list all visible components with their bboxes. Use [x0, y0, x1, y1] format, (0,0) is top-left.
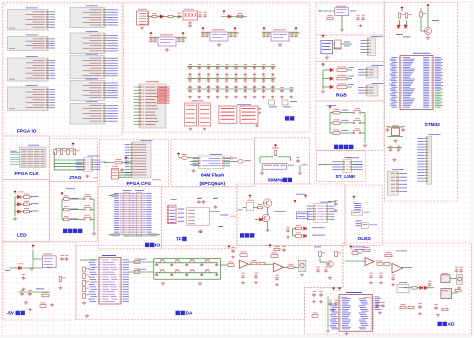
capacitor C105 [459, 269, 463, 273]
section border TF CARD TF卡 [161, 187, 237, 249]
fuse F1 [152, 15, 157, 18]
resistor R48 feedback [385, 254, 392, 257]
wire buz3 [267, 222, 269, 229]
svg-text:JTAG: JTAG [69, 175, 82, 181]
power flag key2 [329, 106, 332, 110]
RGB LED D8 [330, 85, 333, 89]
USB connector J1 [137, 11, 149, 25]
svg-text:FPGA CFG: FPGA CFG [127, 181, 152, 187]
crystal Y2 [392, 128, 400, 136]
net label buzic top [296, 193, 305, 196]
power flag osc [274, 144, 277, 148]
net label -5vb [36, 288, 44, 291]
net label led2 [31, 210, 39, 213]
net label da right [314, 246, 321, 249]
wire oled [353, 202, 355, 204]
wire stmled [399, 20, 401, 25]
oscillator Y1 [263, 163, 287, 169]
transformer T2 [441, 289, 452, 299]
DA filter components [155, 262, 218, 264]
wire jtag left [53, 152, 55, 170]
push button S5 [353, 121, 361, 124]
capacitor C84 [28, 292, 32, 296]
connector P6 (FPGA IO bank) [70, 33, 105, 54]
ground oscsec [325, 56, 329, 60]
ground ad ext3 [331, 309, 335, 312]
section border KEY1 独立按键 [49, 182, 97, 242]
power flag da2 [269, 244, 272, 248]
wire cfg jumper [119, 172, 132, 174]
net label oled conn [364, 211, 370, 214]
capacitor C82b [65, 257, 69, 261]
resistor R17 [337, 86, 347, 89]
ground rst1 [359, 24, 363, 27]
resistor R20 [333, 132, 340, 135]
wire rgb vertical [322, 70, 324, 89]
wire da op [248, 263, 251, 265]
plug key bottom right [149, 234, 157, 236]
svg-text:(EPCQ64A): (EPCQ64A) [200, 181, 226, 187]
transformer T1 [441, 275, 450, 283]
svg-text:DA: DA [186, 311, 193, 317]
resistor R34 [251, 262, 257, 265]
ground ad r2 [418, 312, 422, 315]
pin header J6 expansion [123, 189, 132, 192]
resistor R39 [274, 248, 280, 251]
wire da out [294, 266, 298, 268]
transistor Q6 [424, 28, 431, 35]
net label buz row1 [312, 226, 325, 229]
resistor R55 [408, 306, 414, 309]
net label cfg in [101, 161, 106, 164]
ground -5v2 [22, 288, 26, 291]
power flag cfg1 [125, 157, 128, 161]
power flag oled [353, 196, 356, 200]
capacitor C98 [328, 302, 332, 306]
LED D2 power [228, 15, 231, 19]
wire key2-2 [330, 132, 333, 134]
resistor R49 [412, 287, 417, 290]
net label key2 top [327, 104, 336, 107]
capacitor C1 [177, 15, 181, 19]
wire jtag bus3 [54, 166, 83, 168]
power flag ind [223, 10, 226, 14]
LDO regulator U7 with caps [158, 37, 176, 46]
ground da pwr1 [231, 256, 235, 259]
ground -5v6 [28, 308, 32, 311]
diode D14 [424, 286, 427, 290]
ground -5v3 [59, 286, 63, 289]
svg-text:FPGA IO: FPGA IO [17, 129, 37, 135]
svg-text:STM32: STM32 [425, 122, 441, 128]
section border POWER 电源 [124, 3, 311, 132]
net label led0 [31, 195, 39, 198]
buzzer LS1 [246, 203, 253, 211]
RGB LED D7 [330, 77, 333, 81]
svg-text:IO: IO [155, 243, 160, 249]
transistor Q8 [262, 214, 270, 222]
ground -5v5 [50, 303, 54, 307]
wire rgb2 [323, 86, 330, 88]
resistor R36 feedback [240, 254, 247, 257]
resistor R43 [352, 252, 358, 255]
power flag jtag [72, 143, 75, 147]
capacitor C83 [20, 292, 24, 296]
red connector J4 [237, 103, 251, 106]
wire buz2 [267, 207, 269, 214]
fuse F2 [182, 156, 188, 160]
section label 扩展IO [145, 243, 149, 247]
resistor R18 [333, 111, 340, 114]
resistor R7 [64, 208, 70, 211]
resistor R37 feedback [271, 255, 278, 258]
ferrite L1 [168, 15, 173, 18]
wire dac to filter1 [128, 261, 154, 263]
section border reset circuit section [316, 3, 384, 35]
wire filter out [220, 264, 228, 266]
section border oscillator section [316, 35, 384, 62]
wire key2-1 [330, 122, 333, 124]
op-amp U16B [274, 263, 284, 272]
ground da left [82, 301, 86, 305]
op-amp U17B [392, 264, 403, 273]
LDO regulator U9 with caps [271, 32, 289, 41]
wire led2 [30, 211, 33, 213]
resistor R6 [64, 198, 70, 201]
capacitor C80 [22, 276, 26, 280]
capacitor C3 [203, 14, 207, 18]
transistor Q7 [326, 261, 333, 267]
LDO regulator U8 with caps [210, 32, 228, 41]
wire adc left [327, 296, 329, 329]
power flag stmq [427, 4, 430, 8]
section label 高速AD [438, 322, 442, 326]
net label oled r [369, 223, 377, 226]
LED D11 [404, 25, 408, 28]
net label rst [350, 10, 356, 13]
resistor R52 [455, 289, 461, 292]
capacitor C103 [434, 306, 438, 310]
resistor R46 [377, 263, 383, 266]
capacitor C70 [356, 17, 360, 21]
ground da op1 [241, 281, 245, 284]
capacitor C88 [231, 249, 235, 253]
power flag led [14, 191, 17, 195]
plug key bottom left [112, 234, 120, 236]
capacitor C86 [254, 275, 258, 279]
wire stm caps [387, 147, 402, 149]
section border BUZZER 蜂鸣器 [237, 184, 345, 245]
ground rst2 [340, 29, 344, 32]
wire rgb0 [323, 69, 330, 71]
power flag buzic [304, 195, 307, 199]
capacitor C101 [381, 304, 385, 308]
wire stm xtal [388, 126, 404, 128]
svg-text:RGB: RGB [336, 93, 347, 99]
resistor R27 [420, 12, 423, 17]
wire da right [319, 258, 321, 263]
ground jtag1 [86, 175, 90, 178]
test point TP1 [269, 100, 275, 105]
TF card socket J9 [187, 208, 210, 226]
LED D10 [397, 25, 401, 28]
ground led [13, 217, 17, 221]
ground ad ext2 [319, 300, 323, 303]
net label tf r1 [220, 214, 228, 217]
connector P7 (FPGA IO bank) [70, 56, 105, 79]
push button S3 [84, 217, 92, 220]
power flag -5v [32, 245, 35, 249]
diode D13 [420, 286, 423, 290]
ground da op3 [275, 283, 279, 286]
capacitor C92 [369, 275, 373, 279]
net label led1 [31, 202, 39, 205]
wire led0 [30, 196, 33, 198]
resistor R16 [337, 77, 347, 80]
net label key1 [71, 208, 79, 211]
net label key0 [71, 197, 79, 200]
wire jtag tops [55, 147, 75, 149]
plug key top left [112, 194, 118, 196]
section border ST_LINK [317, 151, 366, 182]
gnd label tf3 [219, 226, 224, 227]
wire osc loop [260, 156, 273, 158]
ground stm xtal [393, 139, 397, 143]
wire ad op2 [389, 263, 392, 265]
resistor R29 [42, 294, 49, 297]
resistor R53 [312, 315, 318, 318]
DA filter network box [154, 258, 221, 279]
section border RGB [316, 62, 384, 102]
wire -5v top [32, 250, 34, 259]
section border FPGA CFG [99, 140, 168, 187]
svg-text:AD: AD [448, 322, 455, 328]
wire jtag bus1 [54, 159, 83, 161]
net label clk [10, 150, 17, 153]
SMA connector J16 [457, 275, 463, 285]
capacitor C71 [361, 17, 365, 21]
pin header J7 expansion [135, 189, 144, 192]
power flag flash [177, 153, 180, 157]
resistor R45 [274, 151, 277, 156]
svg-text:LED: LED [17, 233, 27, 239]
wire -5v3 [18, 291, 50, 293]
power flag buz [249, 195, 252, 199]
RGB LED D6 [330, 68, 333, 72]
resistor R33 [228, 264, 234, 267]
ground da filter2 [198, 282, 202, 286]
wire flash1 [179, 157, 182, 159]
wire led1 [30, 203, 33, 205]
resistor R14 [362, 223, 369, 229]
capacitor table CB1 [192, 100, 204, 103]
connector P4 (FPGA IO bank) [8, 87, 49, 111]
gnd label tf1 [197, 198, 202, 199]
wire rst2 [341, 16, 343, 29]
ground adc left [326, 330, 330, 333]
section border JTAG [49, 139, 97, 182]
section label 独立按键 left [63, 229, 67, 233]
wire rst in [318, 10, 335, 12]
resistor R12 [296, 227, 302, 230]
ADC IC U18 [339, 295, 373, 332]
SWD header J13 [387, 171, 398, 195]
section border EXPANSION IO 扩展IO [98, 187, 161, 249]
wire cfg in [104, 162, 114, 164]
resistor R1 [237, 15, 243, 18]
power flag da1 [228, 245, 231, 249]
wire dac to filter2 [128, 271, 154, 273]
ground da filter1 [161, 282, 165, 286]
power flag ad ext [332, 287, 335, 291]
push button S6 [353, 131, 361, 134]
red jumper JP1 [112, 169, 119, 180]
JTAG connector J2 [84, 158, 93, 172]
resistor pack RN2 [83, 267, 86, 272]
wire ad mid [404, 287, 412, 289]
capacitor C62 [214, 205, 218, 209]
SMA connector J15 [298, 260, 306, 271]
capacitor C104 [455, 269, 459, 273]
capacitor C91 [324, 269, 328, 273]
net label oled rows [354, 202, 361, 205]
connector P2 (FPGA IO bank) [8, 37, 49, 51]
capacitor C81 [30, 269, 33, 270]
svg-text:OLED: OLED [358, 236, 372, 242]
resistor R54 [400, 306, 406, 309]
resistor R10 [258, 206, 263, 209]
wire key0a [62, 198, 64, 200]
wire key2-0 [330, 112, 333, 114]
crystal oscillator X2 [321, 40, 333, 53]
diode D18 [304, 234, 307, 238]
ground stmq [426, 36, 430, 40]
connector P8 (FPGA IO bank) [70, 81, 105, 101]
OLED connector J10 [351, 211, 362, 215]
connector P9 (FPGA IO bank) [70, 103, 105, 124]
section label 电源 [285, 116, 289, 120]
capacitor C100 [375, 304, 379, 308]
op-amp U17A [365, 258, 374, 266]
resistor R20 [54, 150, 57, 155]
wire tf right [210, 211, 220, 213]
net label pwr [290, 100, 297, 103]
capacitor C94 [391, 277, 395, 281]
ground osc1 [260, 172, 264, 175]
net label osc c [302, 164, 308, 167]
ground flash2 [191, 169, 195, 173]
capacitor C89 [282, 248, 286, 252]
wire key vright [93, 199, 95, 231]
net label flash r [245, 159, 251, 162]
capacitor C99 [334, 302, 338, 306]
resistor R60 [134, 261, 140, 264]
wire key2 vleft [329, 113, 331, 133]
test point TP2 [282, 100, 288, 105]
decoupling capacitor bank row2 [187, 78, 276, 80]
resistor R31 [115, 161, 122, 164]
section border AD 高速AD [305, 243, 472, 334]
wire ad op1 [358, 252, 362, 254]
schottky diode D12 [19, 266, 22, 270]
capacitor table CB2 [199, 103, 211, 126]
LED D3 [15, 196, 18, 198]
ground ad op1 [369, 281, 373, 284]
section label 蜂鸣器 [240, 233, 244, 237]
ground key1 [92, 232, 96, 236]
wire da left [80, 259, 96, 261]
ground da op2 [254, 281, 258, 284]
ground ad op2 [379, 281, 383, 284]
decoupling capacitor bank row3 [187, 88, 294, 90]
section border DA 高速DA [76, 246, 343, 320]
capacitor C66 [334, 202, 338, 206]
push button S1 [84, 197, 92, 200]
section border OLED [345, 185, 382, 245]
wire flash2 [224, 157, 228, 159]
section label 高速DA [176, 311, 180, 315]
net labels tf mid [178, 208, 185, 211]
net label stmled1 [396, 33, 403, 36]
resistor R28 [59, 277, 62, 282]
resistor R42 [335, 252, 338, 257]
power flag ad top [350, 246, 353, 250]
power flag oscsec [322, 35, 325, 39]
net label oled rows2 [356, 220, 362, 223]
capacitor C2 [198, 14, 202, 18]
crystal Y3 [335, 40, 342, 49]
pin header J14 [426, 136, 432, 184]
resistor R47 [384, 263, 390, 266]
diode D17 [304, 227, 307, 231]
capacitor C74 [389, 148, 393, 152]
net label -5v in [5, 269, 11, 272]
ground da out [300, 274, 304, 277]
svg-text:TF: TF [176, 237, 182, 243]
wire -5v1 [10, 267, 19, 269]
net label buz mid [275, 210, 286, 213]
resistor R56 [442, 308, 448, 311]
transistor Q1 [263, 199, 271, 207]
ground da right [328, 276, 332, 280]
capacitor C61 [202, 200, 206, 204]
ground buzic r [334, 209, 338, 212]
op-amp U16A [239, 260, 248, 268]
svg-text:-5V: -5V [7, 311, 15, 317]
resistor R30 [40, 305, 46, 308]
resistor R2 [24, 196, 30, 199]
capacitor C50 [296, 159, 300, 163]
FPGA CLK IC U10 [20, 147, 47, 167]
capacitor C40 [120, 168, 124, 172]
ST_LINK IC U5 [343, 159, 352, 172]
section border -5V POWER [3, 242, 76, 320]
power header J3 [139, 84, 166, 128]
section border KEY2 独立按键 [316, 101, 384, 151]
section border STM32 [385, 3, 458, 202]
wire rgb1 [323, 78, 330, 80]
connector P3 (FPGA IO bank) [8, 58, 49, 81]
capacitor C96 [312, 293, 316, 297]
section border 64M Flash [171, 140, 255, 187]
wire clk bus [10, 152, 19, 154]
capacitor C60 [197, 200, 201, 204]
net label key2 [71, 217, 79, 220]
gnd label tf2 [213, 198, 218, 199]
node cfg [125, 162, 126, 163]
decoupling capacitor bank row1 [187, 65, 276, 67]
wire stlink1 [318, 164, 332, 166]
